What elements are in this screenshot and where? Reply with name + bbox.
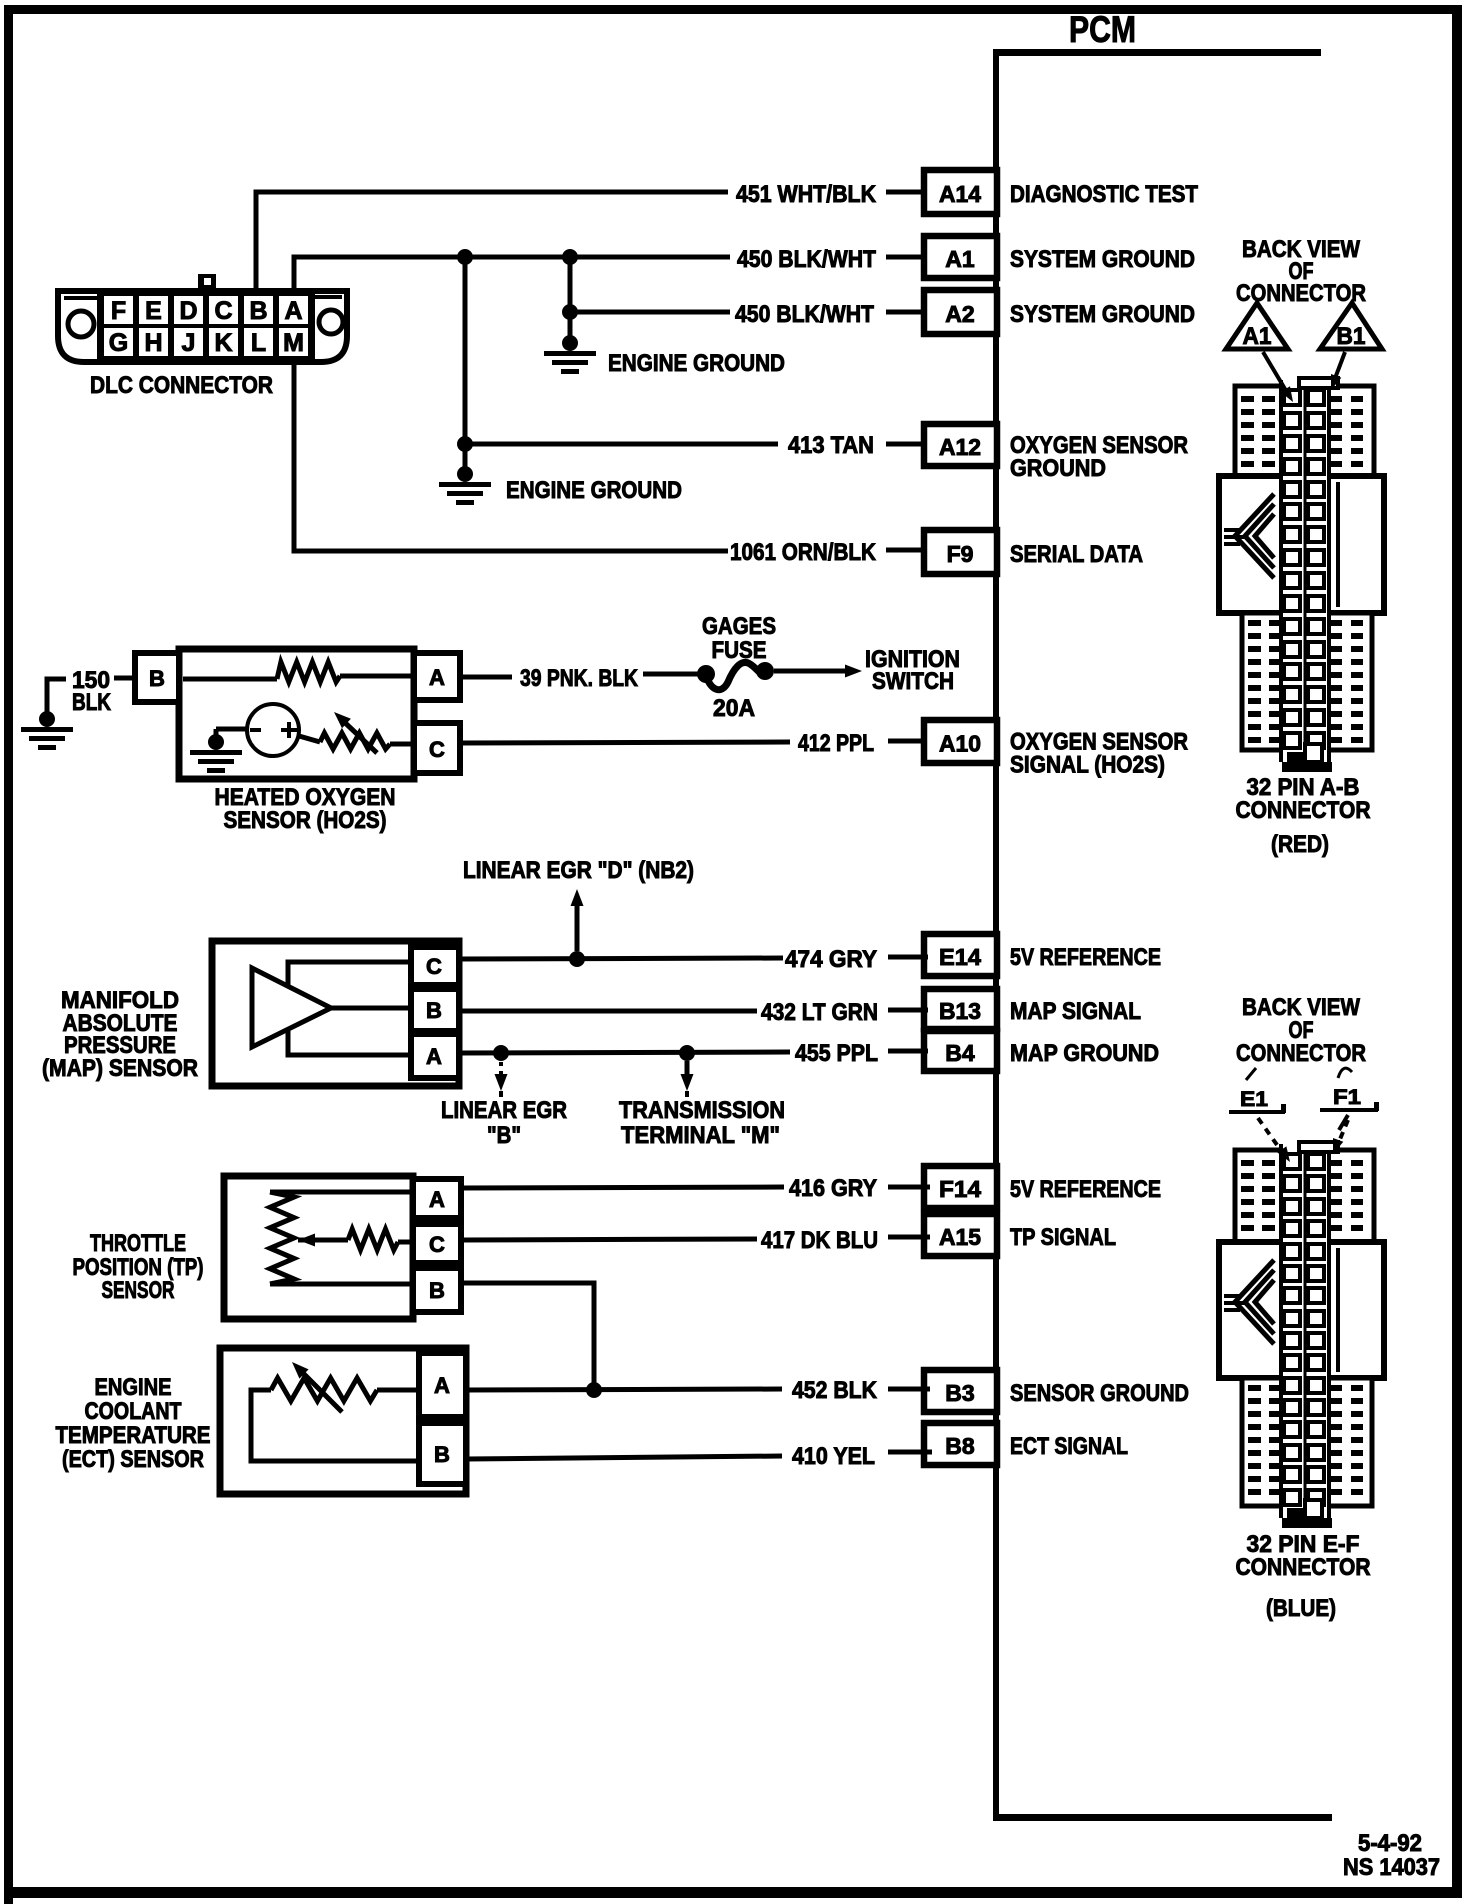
svg-text:417 DK BLU: 417 DK BLU [761, 1227, 878, 1254]
terminal A (MAP) [411, 1034, 459, 1078]
pin box A10 [924, 720, 997, 763]
svg-text:K: K [214, 329, 232, 357]
svg-text:(ECT) SENSOR: (ECT) SENSOR [62, 1446, 204, 1473]
wire stub to E14 [888, 955, 928, 960]
svg-text:GAGES: GAGES [702, 613, 776, 640]
svg-text:A10: A10 [939, 731, 981, 757]
pin box F14 [924, 1166, 997, 1208]
svg-text:G: G [109, 329, 128, 357]
fuse GAGES 20A [697, 665, 715, 683]
svg-text:A12: A12 [939, 434, 981, 460]
E-F connector middle housing wings [1219, 1242, 1384, 1378]
ground (150 BLK) [21, 727, 73, 732]
svg-text:SYSTEM GROUND: SYSTEM GROUND [1010, 246, 1195, 273]
wire stub to B4 [888, 1049, 928, 1054]
wire arrow up to LINEAR EGR D (NB2) [575, 901, 580, 951]
svg-text:A2: A2 [945, 301, 974, 327]
A-B connector upper hatched housing [1235, 386, 1374, 476]
svg-text:C: C [426, 954, 442, 979]
throttle position TP sensor body [224, 1176, 413, 1319]
wire stub to F14 [888, 1185, 930, 1190]
svg-text:CONNECTOR: CONNECTOR [1236, 1554, 1371, 1581]
junction node to transmission terminal M [679, 1045, 695, 1061]
svg-text:5V REFERENCE: 5V REFERENCE [1010, 944, 1161, 971]
junction node on 450 wire at x465 [457, 249, 473, 265]
junction node to linear EGR B [493, 1045, 509, 1061]
svg-text:416 GRY: 416 GRY [789, 1175, 877, 1202]
node above engine ground 2 [457, 466, 473, 482]
svg-text:455 PPL: 455 PPL [795, 1040, 878, 1067]
svg-text:CONNECTOR: CONNECTOR [1236, 797, 1371, 824]
svg-text:B3: B3 [945, 1380, 974, 1406]
junction node on 450 wire at x570 [562, 249, 578, 265]
heated oxygen sensor HO2S body [179, 649, 414, 779]
terminal C (TP) [413, 1224, 461, 1263]
svg-text:L: L [251, 329, 266, 357]
E-F connector center pin columns [1279, 1142, 1331, 1520]
svg-text:E: E [145, 297, 162, 325]
svg-text:412 PPL: 412 PPL [798, 730, 874, 757]
wire 413 TAN from junction to PCM A12 [463, 257, 468, 477]
callout triangle B1 [1320, 303, 1382, 349]
junction node at A2 tee [562, 304, 578, 320]
dashed arrow from E1 to connector [1258, 1118, 1282, 1152]
E-F connector upper hatched housing [1235, 1150, 1374, 1242]
internal leads of MAP sensor [288, 962, 411, 1055]
svg-text:A: A [284, 297, 302, 325]
pin box B4 [924, 1031, 997, 1071]
svg-text:F14: F14 [939, 1176, 981, 1202]
terminal C (MAP) [411, 947, 459, 985]
svg-text:A: A [429, 665, 445, 690]
svg-text:SERIAL DATA: SERIAL DATA [1010, 541, 1143, 568]
svg-text:ENGINE GROUND: ENGINE GROUND [608, 350, 785, 377]
svg-text:5V REFERENCE: 5V REFERENCE [1010, 1176, 1161, 1203]
wire 432 LT GRN from MAP B to PCM B13 [459, 1009, 757, 1014]
oxygen cell (voltage source) inside HO2S [247, 704, 299, 756]
DLC connector J1 [58, 274, 347, 364]
svg-text:SENSOR: SENSOR [102, 1277, 175, 1304]
pin box A12 [924, 424, 997, 466]
svg-text:B1: B1 [1337, 323, 1366, 350]
wire 455 PPL from MAP A to PCM B4 [459, 1052, 790, 1053]
svg-text:432 LT GRN: 432 LT GRN [761, 999, 878, 1026]
svg-text:TRANSMISSION: TRANSMISSION [619, 1097, 785, 1124]
potentiometer resistor inside TP sensor [270, 1190, 413, 1195]
svg-text:PCM: PCM [1069, 9, 1136, 50]
svg-text:SENSOR GROUND: SENSOR GROUND [1010, 1380, 1189, 1407]
ground engine ground 1 [544, 351, 596, 356]
svg-text:A1: A1 [945, 246, 975, 272]
svg-text:410 YEL: 410 YEL [792, 1443, 875, 1470]
A-B connector mounting foot [1287, 752, 1303, 764]
svg-text:474 GRY: 474 GRY [785, 946, 877, 973]
ground engine ground 2 [439, 482, 491, 487]
svg-text:B13: B13 [939, 998, 981, 1024]
wiper arrow inside TP sensor [298, 1234, 315, 1247]
pin box A2 [924, 290, 997, 334]
svg-text:A15: A15 [939, 1224, 981, 1250]
wire from cell to internal ground [216, 727, 247, 732]
pin box A14 [924, 170, 997, 214]
wire stub to A15 [888, 1235, 930, 1240]
dashed arrow down to LINEAR EGR B [499, 1062, 503, 1078]
svg-text:TP SIGNAL: TP SIGNAL [1010, 1224, 1116, 1251]
svg-text:A: A [426, 1044, 442, 1069]
svg-text:B4: B4 [945, 1040, 975, 1066]
heater resistor inside HO2S [183, 677, 277, 682]
svg-text:"B": "B" [487, 1122, 521, 1149]
svg-text:1061 ORN/BLK: 1061 ORN/BLK [730, 539, 877, 566]
svg-text:COOLANT: COOLANT [85, 1398, 182, 1425]
terminal A (TP) [413, 1179, 461, 1218]
svg-text:(RED): (RED) [1271, 831, 1329, 858]
wire 150 BLK from HO2S terminal B to ground [114, 676, 135, 681]
E-F connector mounting foot [1287, 1508, 1303, 1520]
svg-text:SWITCH: SWITCH [872, 668, 954, 695]
svg-text:450 BLK/WHT: 450 BLK/WHT [735, 301, 874, 328]
svg-text:ECT SIGNAL: ECT SIGNAL [1010, 1433, 1128, 1460]
svg-text:H: H [144, 329, 162, 357]
svg-text:413 TAN: 413 TAN [788, 432, 874, 459]
svg-text:451 WHT/BLK: 451 WHT/BLK [736, 181, 877, 208]
svg-text:GROUND: GROUND [1010, 455, 1106, 482]
svg-text:J: J [182, 329, 196, 357]
wire from fuse to ignition switch with arrow [774, 669, 845, 674]
A-B connector top tab [1299, 378, 1338, 388]
svg-text:452 BLK: 452 BLK [792, 1377, 878, 1404]
engine coolant temperature ECT sensor body [220, 1348, 466, 1494]
terminal A (ECT) [419, 1353, 466, 1417]
thermistor arrow [298, 1368, 342, 1412]
terminal A (HO2S) [414, 653, 460, 700]
arrow down to TRANSMISSION TERMINAL M [685, 1061, 690, 1078]
pin box B13 [924, 989, 997, 1029]
svg-text:A: A [434, 1373, 450, 1398]
svg-text:C: C [429, 1232, 445, 1257]
A-B connector lower hatched housing [1242, 613, 1372, 750]
pin box F9 [924, 530, 997, 574]
wire stub to A10 [888, 739, 926, 744]
svg-text:(MAP) SENSOR: (MAP) SENSOR [42, 1055, 198, 1082]
wire 1061 ORN/BLK from DLC pin M to PCM F9 [294, 362, 728, 551]
pin box E14 [924, 934, 997, 976]
svg-text:20A: 20A [713, 695, 755, 722]
svg-text:M: M [283, 329, 304, 357]
svg-text:D: D [179, 297, 197, 325]
wire stub to B13 [888, 1008, 928, 1013]
svg-text:THROTTLE: THROTTLE [90, 1230, 186, 1257]
svg-text:FUSE: FUSE [712, 637, 767, 664]
svg-text:MAP GROUND: MAP GROUND [1010, 1040, 1159, 1067]
pin box A15 [924, 1214, 997, 1256]
svg-text:TEMPERATURE: TEMPERATURE [56, 1422, 211, 1449]
E-F connector top tab [1299, 1142, 1338, 1152]
PCM module box [993, 49, 1321, 56]
svg-text:NS 14037: NS 14037 [1343, 1854, 1440, 1881]
svg-text:A1: A1 [1243, 323, 1272, 350]
svg-text:DIAGNOSTIC TEST: DIAGNOSTIC TEST [1010, 181, 1198, 208]
svg-text:SIGNAL (HO2S): SIGNAL (HO2S) [1010, 752, 1165, 779]
node above engine ground 1 [562, 335, 578, 351]
junction node to linear EGR D [569, 951, 585, 967]
A-B connector middle housing wings [1219, 476, 1384, 613]
wire stub to B3 [888, 1387, 930, 1392]
svg-text:ENGINE GROUND: ENGINE GROUND [506, 477, 682, 504]
ground inside HO2S [190, 750, 242, 755]
svg-text:E1: E1 [1240, 1088, 1268, 1111]
wire stub to A12 [886, 442, 924, 447]
wire 39 PNK BLK from HO2S terminal A to gages fuse [460, 675, 512, 680]
svg-text:BLK: BLK [72, 689, 112, 716]
svg-text:SENSOR (HO2S): SENSOR (HO2S) [224, 807, 387, 834]
svg-text:C: C [429, 737, 445, 762]
wire 452 BLK from ECT A to PCM B3 [466, 1389, 782, 1390]
junction node with TP B wire [586, 1382, 602, 1398]
svg-text:C: C [214, 297, 232, 325]
svg-text:B: B [429, 1278, 445, 1303]
svg-text:B: B [434, 1442, 450, 1467]
wire 412 PPL from HO2S terminal C to PCM A10 [460, 742, 790, 743]
arrow from B1 to connector [1334, 352, 1345, 381]
svg-text:LINEAR EGR "D" (NB2): LINEAR EGR "D" (NB2) [463, 857, 694, 884]
thermistor inside ECT sensor [271, 1378, 377, 1401]
svg-text:DLC CONNECTOR: DLC CONNECTOR [90, 372, 273, 399]
pin box B3 [924, 1370, 997, 1412]
terminal B (ECT) [419, 1423, 466, 1484]
A-B connector center pin columns [1279, 378, 1331, 764]
terminal B (TP) [413, 1268, 461, 1312]
MAP sensor body [212, 941, 459, 1086]
pin box A1 [924, 236, 997, 278]
svg-text:5-4-92: 5-4-92 [1358, 1830, 1422, 1857]
svg-text:SYSTEM GROUND: SYSTEM GROUND [1010, 301, 1195, 328]
svg-text:F: F [111, 297, 126, 325]
wire 417 DK BLU from TP C to PCM A15 [461, 1239, 757, 1240]
svg-text:B: B [249, 297, 267, 325]
wire 474 GRY from MAP C to PCM E14 [459, 958, 783, 959]
wire 450 BLK/WHT from DLC pin A to PCM A1 [294, 257, 730, 291]
wire stub to B8 [888, 1450, 932, 1455]
svg-text:CONNECTOR: CONNECTOR [1236, 1040, 1366, 1067]
junction node at 413 tee [457, 436, 473, 452]
wire 450 BLK/WHT branch to PCM A2 [568, 257, 573, 345]
dashed arrow from F1 to connector [1338, 1120, 1348, 1144]
terminal B (MAP) [411, 989, 459, 1031]
svg-text:TERMINAL "M": TERMINAL "M" [621, 1122, 780, 1149]
svg-text:LINEAR EGR: LINEAR EGR [441, 1097, 567, 1124]
svg-text:MAP SIGNAL: MAP SIGNAL [1010, 998, 1141, 1025]
svg-text:450 BLK/WHT: 450 BLK/WHT [737, 246, 876, 273]
terminal C (HO2S) [414, 723, 460, 773]
svg-text:F1: F1 [1333, 1086, 1361, 1109]
callout triangle A1 [1226, 303, 1288, 349]
wire from TP B joining 452 BLK [461, 1283, 594, 1388]
svg-text:A: A [429, 1187, 445, 1212]
wire stub to A2 [886, 310, 924, 315]
E-F connector lower hatched housing [1242, 1378, 1372, 1506]
svg-text:B: B [149, 666, 165, 691]
svg-text:39 PNK. BLK: 39 PNK. BLK [520, 665, 639, 692]
terminal B (HO2S) [135, 653, 179, 702]
svg-text:ENGINE: ENGINE [95, 1374, 172, 1401]
svg-text:A14: A14 [939, 181, 981, 207]
svg-text:E14: E14 [939, 944, 981, 970]
wire 416 GRY from TP A to PCM F14 [461, 1187, 784, 1188]
wire 410 YEL from ECT B to PCM B8 [466, 1456, 782, 1459]
pin box B8 [924, 1423, 997, 1465]
svg-text:B8: B8 [945, 1433, 975, 1459]
svg-text:(BLUE): (BLUE) [1266, 1595, 1336, 1622]
arrow from A1 to connector [1263, 352, 1288, 394]
wire 451 WHT/BLK from DLC pin B to PCM A14 [256, 192, 728, 291]
wire stub to F9 [886, 548, 926, 553]
svg-text:B: B [426, 998, 442, 1023]
variable resistor to terminal C [299, 736, 320, 742]
svg-text:F9: F9 [947, 541, 974, 567]
amplifier triangle inside MAP sensor [252, 968, 331, 1047]
wire stub to A14 [886, 190, 924, 195]
wire stub to A1 [886, 255, 924, 260]
